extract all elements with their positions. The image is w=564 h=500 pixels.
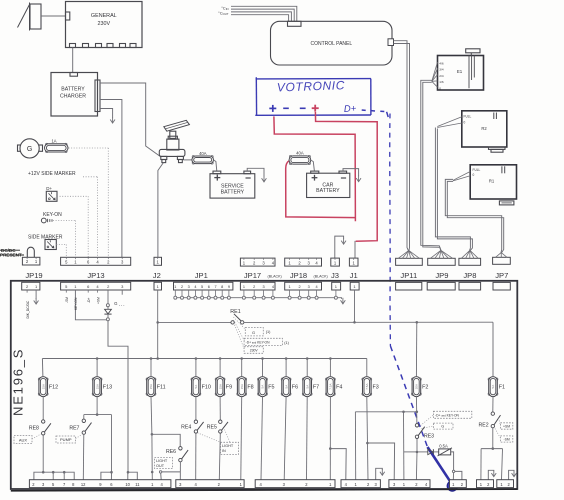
- wire side marker to JP13 pin5 (dotted): [56, 244, 66, 246]
- svg-text:RE5: RE5: [207, 425, 217, 431]
- red wire + to J1: [315, 112, 377, 241]
- node J2/main bus: [156, 357, 159, 360]
- wire rail to pin 1 (strip D): [354, 412, 356, 480]
- svg-text:RE8: RE8: [29, 425, 39, 431]
- svg-text:F3: F3: [373, 385, 379, 391]
- annotation - (blue) second: [300, 107, 306, 109]
- ground (JP19 pin1): [35, 290, 37, 299]
- svg-text:(1): (1): [284, 341, 289, 345]
- svg-text:40A: 40A: [296, 150, 304, 155]
- output strip B: [176, 480, 244, 488]
- svg-text:230V: 230V: [250, 349, 259, 353]
- wire RE6 output: [179, 462, 181, 480]
- fuse F10 5A: [191, 377, 211, 397]
- svg-text:-D+: -D+: [87, 298, 91, 303]
- svg-text:°COUT: °COUT: [218, 10, 229, 16]
- svg-text:RE6: RE6: [166, 449, 176, 455]
- svg-text:F9: F9: [226, 385, 232, 391]
- connector J3 (outer): [331, 258, 340, 266]
- svg-text:G: G: [441, 425, 444, 429]
- wire RE4 to pin 4: [195, 433, 197, 480]
- svg-text:0: 0: [473, 173, 475, 177]
- connector J2 (inner): [154, 282, 162, 290]
- connector JP7 (outer): [493, 253, 511, 265]
- wire service battery - to ground: [247, 168, 264, 176]
- svg-text:DIK_DC/DC: DIK_DC/DC: [26, 300, 30, 318]
- battery charger U1: [51, 73, 100, 117]
- connector JP19 (outer): [22, 257, 40, 265]
- svg-text:F6: F6: [292, 385, 298, 391]
- label -SM (JP13 pin5): [65, 290, 67, 293]
- svg-text:JP13: JP13: [87, 271, 104, 280]
- svg-text:0: 0: [439, 87, 441, 91]
- svg-text:F8: F8: [247, 385, 253, 391]
- svg-text:KEY-ON: KEY-ON: [74, 297, 78, 310]
- svg-text:2: 2: [299, 285, 301, 289]
- relay contact RE2: [479, 412, 501, 429]
- cable control panel to JP11: [394, 41, 409, 251]
- annotation box -D+ and KEY-ON (RE3): [433, 411, 471, 418]
- diode D1 (G line): [105, 309, 112, 314]
- svg-text:JP1: JP1: [195, 271, 208, 280]
- connector JP13 (inner): [61, 282, 131, 290]
- wire F8 to pin 1: [240, 397, 243, 480]
- svg-text:D+: D+: [46, 186, 52, 191]
- svg-text:0: 0: [464, 121, 466, 125]
- svg-text:3: 3: [188, 285, 190, 289]
- svg-text:5A: 5A: [284, 385, 288, 389]
- annotation box LIGHT IN: [221, 442, 239, 454]
- connector JP8 (outer): [459, 250, 481, 265]
- connector JP17 (outer): [240, 258, 275, 266]
- wire F2 to RE3: [415, 397, 418, 424]
- svg-text:-D+ and KEY-ON: -D+ and KEY-ON: [435, 413, 460, 417]
- label DC/DC PRESENT (struck): [0, 248, 24, 258]
- connector JP8 (inner): [459, 282, 481, 290]
- main +12V bus: [42, 358, 366, 360]
- wire G line JP13 pin2: [107, 290, 109, 304]
- wire RE8 to output bus: [42, 435, 44, 472]
- wire switch to J2: [158, 163, 164, 258]
- svg-text:KEY-ON: KEY-ON: [43, 212, 62, 218]
- svg-text:BATTERY: BATTERY: [316, 188, 340, 194]
- svg-text:7.5A: 7.5A: [329, 384, 333, 390]
- connector JP17 (inner): [240, 282, 275, 290]
- annotation + (red): [312, 107, 319, 109]
- svg-text:230V: 230V: [98, 21, 111, 27]
- svg-text:R2: R2: [481, 126, 487, 131]
- svg-text:VOTRONIC: VOTRONIC: [277, 78, 346, 94]
- wire F1 to RE2: [492, 397, 494, 412]
- svg-text:F13: F13: [103, 385, 112, 391]
- svg-text:G: G: [252, 330, 255, 335]
- fuse F11 15A: [146, 377, 165, 397]
- output strip H: [497, 480, 514, 488]
- connector JP9 (inner): [427, 282, 455, 290]
- wire J2 to bus: [157, 290, 159, 359]
- svg-text:1: 1: [243, 285, 245, 289]
- blue solid wire (pen): [428, 447, 453, 484]
- label DIK DC/DC (JP19 pin2): [26, 290, 28, 293]
- node pins 10/11 feed: [127, 471, 130, 474]
- fuse F12 15A: [38, 377, 58, 397]
- svg-text:4/6: 4/6: [439, 61, 444, 65]
- svg-text:RE1: RE1: [230, 309, 241, 315]
- ground (car battery): [356, 178, 361, 182]
- annotation dashes after D+: [362, 109, 366, 111]
- fuse F13 15A: [92, 377, 112, 397]
- svg-text:LIGHT: LIGHT: [222, 444, 234, 448]
- stub JP13 pin3: [121, 290, 123, 295]
- svg-text:FULL: FULL: [464, 115, 472, 119]
- red wire + to car battery loop: [274, 116, 356, 221]
- fuse F6 5A: [281, 377, 298, 397]
- node F2 tap: [416, 321, 419, 324]
- node J1/RE1 bus: [353, 321, 356, 324]
- svg-text:11: 11: [135, 482, 140, 487]
- mains plug P1: [18, 3, 42, 31]
- connector JP18 (inner): [285, 282, 322, 290]
- svg-text:JP11: JP11: [400, 271, 417, 280]
- wire switch to 40A fuse: [183, 159, 192, 161]
- connector J1 (inner): [350, 282, 359, 290]
- wire 40A to car battery +: [311, 160, 315, 171]
- wire F13 tee: [96, 397, 98, 415]
- annotation box 230V: [244, 347, 263, 354]
- wire RE3 node to pin 2 (strip E): [415, 452, 418, 480]
- connector JP7 (inner): [493, 282, 510, 290]
- cable E1 to JP9: [421, 80, 441, 250]
- ground (strip H pin2): [509, 470, 514, 479]
- annotation box G (1): [245, 328, 263, 336]
- svg-text:3/4: 3/4: [439, 68, 444, 72]
- svg-text:R1: R1: [489, 178, 495, 183]
- connector labels row: [25, 271, 508, 280]
- wire car battery - to ground: [343, 169, 359, 177]
- svg-text:3: 3: [263, 285, 265, 289]
- svg-text:6: 6: [208, 285, 210, 289]
- annotation box VOTRONIC (blue pen): [255, 77, 257, 115]
- wire J1 to RE1 bus: [354, 290, 356, 322]
- relay contact RE1: [158, 309, 244, 324]
- svg-text:1: 1: [289, 285, 291, 289]
- blue dot (pen) terminal: [447, 481, 457, 491]
- fuse 0.5A: [433, 451, 438, 453]
- wire RE7 to pin 12: [82, 434, 85, 479]
- svg-text:JP7: JP7: [495, 271, 508, 280]
- wire F7 to pin 2: [306, 397, 309, 480]
- wire RE1 bus to F2: [415, 322, 417, 376]
- svg-text:-D+ and KEY-ON: -D+ and KEY-ON: [246, 340, 271, 344]
- svg-text:+12V SIDE MARKER: +12V SIDE MARKER: [28, 171, 76, 177]
- fuse F9 15A: [215, 377, 232, 397]
- svg-text:D+: D+: [344, 103, 357, 115]
- fuse 40A (service): [192, 151, 214, 164]
- wire D+ relay to JP13 pin6 (dotted): [57, 195, 88, 197]
- node J2/RE1 bus: [156, 321, 159, 324]
- wire G/KEY-ON down to pins 10/11: [108, 321, 128, 472]
- annotation box +SM: [500, 423, 512, 429]
- svg-text:7: 7: [214, 285, 216, 289]
- wire plug to general: [41, 15, 66, 17]
- svg-text:20A: 20A: [415, 384, 419, 389]
- wire RE5 to pin 2: [219, 433, 220, 480]
- svg-text:RE7: RE7: [69, 425, 79, 431]
- fuse F2 20A: [412, 377, 429, 397]
- annotation box -D+ and KEY-ON (1): [244, 338, 282, 345]
- svg-text:(BLACK): (BLACK): [268, 274, 282, 278]
- svg-text:JP19: JP19: [25, 271, 42, 280]
- svg-text:-SM: -SM: [65, 297, 69, 303]
- fuse F4 7.5A: [326, 377, 343, 397]
- svg-text:JP8: JP8: [463, 271, 476, 280]
- svg-text:J1: J1: [350, 271, 358, 280]
- node KEY-ON/G join: [107, 314, 109, 318]
- annotation + (blue): [269, 107, 276, 109]
- svg-text:8: 8: [221, 285, 223, 289]
- svg-text:15A: 15A: [240, 384, 244, 389]
- RE1 bus to F1/F2: [244, 321, 493, 323]
- svg-text:3: 3: [308, 285, 310, 289]
- svg-text:1: 1: [174, 285, 176, 289]
- svg-text:J2: J2: [153, 271, 161, 280]
- svg-text:F11: F11: [157, 385, 166, 391]
- ground (internal bus): [337, 298, 341, 299]
- leader dotted RE1: [234, 317, 246, 330]
- cable R1 to JP7: [445, 179, 501, 252]
- svg-text:15A: 15A: [95, 384, 99, 389]
- svg-text:CHARGER: CHARGER: [60, 94, 86, 100]
- wire charger to switch: [100, 83, 161, 157]
- svg-text:7.5A: 7.5A: [365, 384, 369, 390]
- blue dashed wire (pen) slant: [390, 346, 427, 447]
- wire tee to RE7: [83, 415, 85, 420]
- E1 wire fan: [432, 62, 438, 81]
- connector JP1 (inner): [174, 282, 233, 290]
- svg-text:J3: J3: [331, 271, 339, 280]
- svg-text:IN: IN: [222, 449, 226, 453]
- leader RE4/RE5 to LIGHT IN: [198, 433, 221, 443]
- svg-text:RE4: RE4: [181, 425, 191, 431]
- relay contact RE3: [415, 424, 434, 440]
- svg-text:2/4: 2/4: [439, 74, 444, 78]
- blue dashed wire (pen) vertical: [389, 114, 392, 347]
- wire RE3 node to rail column: [404, 451, 417, 453]
- wire F11 tee to RE6: [152, 434, 180, 446]
- bus taps (junction nodes): [96, 357, 332, 360]
- label +SM (JP13 pin4): [97, 290, 99, 293]
- wire F11 column: [150, 397, 153, 435]
- svg-text:LIGHT: LIGHT: [156, 459, 168, 463]
- annotation - (blue): [283, 107, 289, 109]
- cable R2 to JP8: [435, 128, 470, 251]
- wire F5 to pin 4: [261, 397, 263, 480]
- relay contact RE6: [166, 447, 188, 462]
- appliance R2: [462, 111, 507, 152]
- svg-text:(BLACK): (BLACK): [314, 274, 328, 278]
- relay contact RE4: [181, 420, 203, 433]
- wire bus to F3: [366, 359, 368, 377]
- fuse F7 5A: [302, 377, 319, 397]
- fuse F5 5A: [258, 377, 275, 397]
- svg-text:15A: 15A: [41, 384, 45, 389]
- svg-text:G: G: [27, 146, 32, 153]
- annotation box -SM: [500, 436, 512, 442]
- svg-text:15A: 15A: [149, 384, 153, 389]
- svg-text:F10: F10: [202, 385, 211, 391]
- connector JP18 (outer): [285, 258, 322, 266]
- wire F4 tee: [329, 397, 331, 480]
- control panel: [271, 21, 393, 65]
- connector JP13 (outer): [61, 257, 131, 265]
- svg-text:F4: F4: [336, 385, 342, 391]
- fuse 40A (car): [289, 150, 311, 164]
- red wire battery loop left/bottom: [286, 161, 356, 218]
- label -D+ (JP13 pin6): [87, 290, 89, 293]
- ground hook above J3: [335, 236, 344, 258]
- leader AUX: [32, 434, 41, 439]
- fuse F3 7.5A: [362, 377, 379, 397]
- wire F12 to RE8: [42, 397, 44, 420]
- svg-text:BATTERY: BATTERY: [221, 189, 245, 195]
- connector JP11 (inner): [396, 282, 422, 290]
- fuse 1A: [45, 138, 69, 152]
- svg-text:E1: E1: [457, 69, 463, 74]
- output strip C: [255, 480, 335, 488]
- ground (strip D pin3): [376, 468, 383, 479]
- output bus pins 2/3/5/7/8: [34, 472, 74, 480]
- output strip F: [450, 480, 467, 488]
- svg-text:40A: 40A: [199, 151, 207, 156]
- leader RE2: [499, 418, 501, 425]
- svg-text:OUT: OUT: [156, 464, 165, 468]
- output strip A: [29, 480, 171, 488]
- generator box GENERAL 230V: [66, 2, 143, 48]
- wire +12V side marker to JP13 pin4 (dotted): [83, 176, 98, 178]
- wire F11 to pin 1: [151, 434, 153, 472]
- wire car battery to J1: [354, 241, 356, 258]
- svg-text:+SM: +SM: [96, 297, 100, 304]
- annotation box AUX: [14, 436, 32, 444]
- svg-text:JP9: JP9: [435, 271, 448, 280]
- svg-text:F7: F7: [313, 385, 319, 391]
- wire RE1 bus to F1: [492, 322, 494, 376]
- svg-text:2: 2: [253, 285, 255, 289]
- connector JP11 (outer): [396, 250, 423, 265]
- connector J1 (outer): [349, 258, 358, 266]
- svg-text:5A: 5A: [491, 385, 495, 389]
- svg-text:4: 4: [272, 285, 274, 289]
- wire 40A to service battery +: [214, 160, 217, 171]
- wire general to battery charger: [72, 48, 74, 73]
- key-on switch: [41, 212, 62, 223]
- svg-text:5: 5: [201, 285, 203, 289]
- svg-text:JP17: JP17: [244, 271, 261, 280]
- output bus pins 10/11: [128, 472, 138, 480]
- output strip D: [341, 480, 380, 488]
- connector J2 (outer): [154, 257, 162, 265]
- lamp DC/DC present on JP19: [27, 247, 34, 257]
- annotation box G (RE3): [433, 423, 453, 429]
- wire KEY-ON JP13 pin1: [75, 290, 106, 320]
- wire key-on to JP13 pin1 (dotted): [53, 220, 75, 222]
- svg-text:F1: F1: [499, 385, 505, 391]
- relay D+: [46, 186, 57, 201]
- svg-text:PUMP: PUMP: [60, 437, 72, 442]
- wire RE3 output node: [416, 439, 418, 451]
- svg-text:GENERAL: GENERAL: [91, 13, 117, 19]
- wire RE2 output tee: [492, 428, 494, 449]
- annotation box LIGHT OUT: [155, 458, 173, 469]
- keyed rail (-D+ and KEY-ON): [355, 411, 416, 413]
- svg-text:F5: F5: [268, 385, 274, 391]
- ground (strip G pin2): [488, 470, 494, 479]
- temperature sensor cable in: [231, 6, 297, 21]
- appliance R1: [470, 165, 516, 205]
- leader RE3: [421, 415, 434, 426]
- output strip G: [477, 480, 494, 488]
- wire rail to pin 1 (strip E): [403, 412, 405, 480]
- svg-text:5A: 5A: [305, 385, 309, 389]
- wire F3 tee: [367, 397, 368, 480]
- internal bus (connector commons): [175, 297, 337, 299]
- svg-text:(1): (1): [266, 330, 271, 334]
- wire charger to ground: [100, 109, 113, 118]
- node G: [106, 304, 109, 307]
- svg-text:-SM: -SM: [503, 437, 509, 441]
- battery disconnect switch S1: [159, 120, 189, 162]
- svg-text:1/6: 1/6: [439, 80, 444, 84]
- svg-text:15A: 15A: [218, 384, 222, 389]
- svg-text:10: 10: [125, 482, 130, 487]
- connector JP9 (outer): [428, 250, 456, 265]
- wire bus to F12: [41, 359, 44, 377]
- wire charger to JP13 pin3: [100, 100, 122, 258]
- svg-text:12: 12: [81, 482, 86, 487]
- svg-text:9: 9: [228, 285, 230, 289]
- ground (charger): [110, 120, 115, 124]
- svg-text:BATTERY: BATTERY: [61, 87, 85, 93]
- wire 1A fuse to JP13 pin2 (dotted): [69, 147, 109, 149]
- svg-text:AUX: AUX: [19, 438, 28, 443]
- svg-text:CONTROL PANEL: CONTROL PANEL: [310, 41, 352, 47]
- svg-text:FULL: FULL: [473, 168, 481, 172]
- output strip E: [389, 480, 430, 488]
- relay contact RE8: [29, 420, 51, 435]
- svg-text:F2: F2: [422, 385, 428, 391]
- service battery B1: [210, 171, 255, 198]
- svg-text:F12: F12: [49, 385, 58, 391]
- control panel connector: [388, 39, 394, 46]
- ground (J3): [341, 241, 346, 245]
- svg-text:+SM: +SM: [503, 424, 510, 428]
- temperature sensor cable out: [231, 12, 291, 21]
- fuse F1 5A: [488, 377, 505, 397]
- car battery B2: [307, 171, 350, 197]
- svg-text:JP18: JP18: [290, 271, 307, 280]
- leader PUMP: [76, 435, 82, 439]
- NE196_S enclosure box: [11, 281, 518, 489]
- R1 wire fan: [453, 172, 470, 181]
- svg-text:5A: 5A: [194, 385, 198, 389]
- ground (service battery): [262, 178, 267, 182]
- connector JP19 (inner): [22, 282, 40, 290]
- svg-text:4: 4: [194, 285, 196, 289]
- svg-text:4: 4: [316, 285, 318, 289]
- svg-text:2: 2: [181, 285, 183, 289]
- relay contact RE7: [69, 419, 91, 434]
- relay contact RE5: [207, 420, 228, 433]
